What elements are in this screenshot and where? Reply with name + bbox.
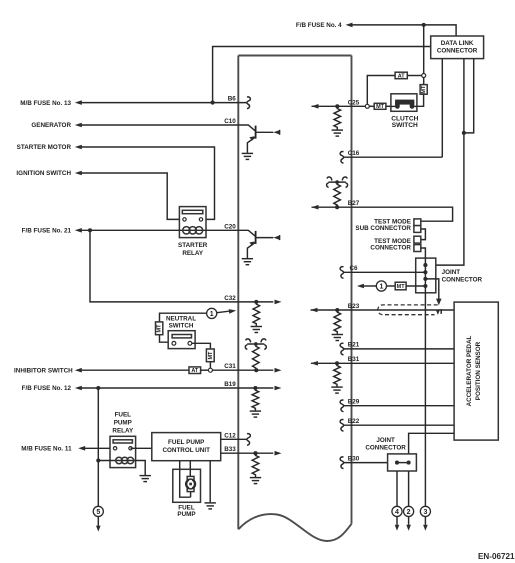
resistor B23 pull-down — [334, 310, 341, 334]
ground for B33 resistor — [250, 478, 261, 484]
arrow from circle 1 to C32 wire — [217, 311, 229, 313]
arrow C25 internal — [312, 104, 319, 109]
svg-text:M/B FUSE No. 13: M/B FUSE No. 13 — [20, 100, 71, 107]
node circle 2 reference — [404, 506, 414, 516]
test mode sub connector square 2 — [414, 226, 421, 233]
starter relay contact bar — [182, 210, 203, 213]
ground for Q1 — [242, 153, 253, 159]
fuel pump relay coil — [116, 457, 134, 464]
svg-text:FUEL: FUEL — [115, 412, 132, 419]
svg-text:SUB CONNECTOR: SUB CONNECTOR — [355, 225, 411, 232]
svg-text:ACCELERATOR PEDAL: ACCELERATOR PEDAL — [466, 335, 473, 406]
svg-text:SWITCH: SWITCH — [392, 122, 418, 129]
svg-text:JOINT: JOINT — [376, 437, 395, 444]
AT box clutch — [395, 72, 407, 79]
svg-text:C6: C6 — [349, 265, 358, 272]
wire C25 to MT box horizontal — [369, 105, 374, 107]
svg-text:AT: AT — [191, 368, 199, 374]
fuel pump control unit box — [152, 433, 221, 461]
wire sub connector to test mode connector — [421, 229, 426, 240]
svg-text:2: 2 — [407, 509, 411, 516]
arrow to INHIBITOR SWITCH — [75, 368, 82, 373]
resistor B19 pull-down — [252, 388, 259, 411]
wire test mode connector to joint connector — [421, 248, 426, 258]
wire FPCU to pin B33 — [221, 452, 239, 454]
wire sensor to joint connector 2 — [409, 433, 455, 454]
node C32 internal junction — [254, 300, 258, 304]
starter relay contact terminal right — [199, 218, 202, 221]
pin B21 terminator hook — [340, 343, 344, 355]
pin C6 terminator hook — [340, 267, 344, 279]
wire B31 row — [311, 362, 454, 364]
test mode sub connector square 1 — [414, 219, 421, 226]
wire DLC pin 1 to ECM C16 wire — [441, 59, 443, 158]
svg-text:INHIBITOR SWITCH: INHIBITOR SWITCH — [14, 367, 73, 374]
arrow to STARTER MOTOR — [75, 145, 82, 150]
node open circle AT/MT clutch — [422, 74, 426, 78]
ECM block top edge — [238, 55, 351, 57]
ground for B31 resistor — [331, 387, 342, 393]
node coil branch junction — [96, 458, 100, 462]
node open circle inhibitor/neutral — [208, 368, 212, 372]
wire C16 to DLC — [344, 156, 442, 158]
wire clutch AT branch — [367, 76, 395, 105]
ground for Q2 — [242, 259, 253, 265]
svg-text:STARTER: STARTER — [178, 242, 208, 249]
ground for C32 resistor — [251, 327, 262, 333]
wire joint connector down to circle 3 — [424, 293, 426, 507]
wire starter relay to pin C20 — [206, 229, 238, 231]
starter relay coil wire — [179, 229, 206, 231]
resistor C31 pull-up — [253, 344, 260, 370]
wire AT box to MT node — [407, 75, 421, 77]
svg-text:JOINT: JOINT — [442, 269, 461, 276]
resistor C32 pull-down — [253, 302, 260, 326]
wire neutral switch to MT box right — [192, 343, 211, 349]
ECM block left edge — [237, 56, 239, 530]
svg-text:CONNECTOR: CONNECTOR — [437, 48, 478, 55]
transistor Q1 emitter arrow — [249, 136, 254, 140]
fuel pump relay contact terminal left — [113, 447, 116, 450]
svg-text:MT: MT — [397, 284, 406, 290]
wire STARTER MOTOR to starter relay contact — [82, 147, 215, 219]
svg-text:C16: C16 — [348, 150, 360, 157]
node circle 4 reference — [392, 506, 402, 516]
arrow to F/B FUSE No. 21 — [75, 228, 82, 233]
wire junction down to clutch AT/MT node — [423, 25, 425, 74]
svg-text:1: 1 — [379, 284, 383, 291]
clutch switch contact symbol — [391, 100, 417, 109]
svg-text:C10: C10 — [224, 118, 236, 125]
resistor B27 pull-up — [334, 182, 341, 207]
MT box joint connector row — [395, 282, 406, 290]
transistor Q1 base wire — [238, 125, 255, 131]
svg-text:AT: AT — [398, 73, 406, 79]
svg-text:B6: B6 — [228, 96, 237, 103]
ground for B19 resistor — [250, 411, 261, 417]
wire MT node to MT box — [423, 78, 425, 85]
wire joint connector 2 left pin down to circle 4 — [396, 471, 398, 506]
wire AT box to node — [201, 369, 209, 371]
wire DLC pin 2 to joint connector — [425, 59, 464, 266]
pin C16 terminator hook — [340, 152, 344, 164]
arrow to F/B FUSE No. 12 — [75, 386, 82, 391]
test mode connector square 3 — [414, 236, 421, 243]
transistor Q1 bar — [255, 126, 257, 139]
svg-text:MT: MT — [208, 351, 214, 360]
arrow shield drain — [436, 299, 442, 306]
node B27 internal junction — [335, 205, 339, 209]
node joint connector pin 3 — [423, 277, 427, 281]
clutch switch box — [391, 94, 417, 112]
svg-text:MT: MT — [376, 104, 385, 110]
MT box clutch horizontal — [374, 103, 386, 110]
neutral switch terminal left — [172, 341, 176, 345]
starter relay coil — [183, 227, 203, 234]
wire coil branch to relay coil — [98, 460, 135, 462]
transistor Q1 emitter wire — [247, 137, 255, 153]
joint connector box — [416, 258, 436, 293]
node circle 3 reference — [420, 506, 430, 516]
joint connector internal wire — [424, 258, 426, 293]
node joint connector 2 pin left — [395, 461, 399, 465]
ECM block wavy bottom edge — [238, 514, 351, 541]
wire B22 to accelerator sensor — [344, 424, 454, 426]
data link connector box — [431, 36, 484, 59]
wire C6 to joint connector — [344, 271, 425, 273]
wire GENERATOR to pin C10 — [82, 124, 239, 126]
MT box neutral switch right — [206, 349, 214, 362]
node F/B FUSE No.21 branch — [88, 228, 92, 232]
arrow below circle 4 — [396, 517, 398, 525]
joint connector 2 internal wire — [397, 462, 409, 464]
node B33 internal junction — [253, 451, 257, 455]
node open circle clutch branch — [365, 104, 369, 108]
fuel pump motor symbol — [186, 476, 196, 491]
node DLC pin2/pin3 junction — [462, 131, 466, 135]
node B6 branch junction — [211, 101, 215, 105]
svg-text:MT: MT — [157, 324, 163, 333]
node joint connector 2 pin right — [407, 461, 411, 465]
node B19 internal junction — [253, 386, 257, 390]
wire B30 to joint connector 2 — [344, 462, 397, 464]
svg-text:FUEL PUMP: FUEL PUMP — [168, 439, 204, 446]
wire circle 1 to MT box neutral — [160, 313, 207, 322]
svg-text:RELAY: RELAY — [182, 250, 204, 257]
svg-text:SWITCH: SWITCH — [169, 323, 194, 330]
accelerator pedal position sensor box — [454, 302, 498, 440]
wire FPCU to fuel pump motor — [189, 461, 191, 477]
wire MT box down to inhibitor node — [209, 362, 211, 369]
svg-text:B19: B19 — [224, 381, 236, 388]
node joint connector pin 4 — [423, 284, 427, 288]
fuel pump relay box — [110, 436, 136, 467]
wire M/B FUSE No.11 to fuel pump relay — [85, 447, 115, 449]
wire C25 row — [312, 105, 366, 107]
wire B6 junction up and right to DLC — [213, 47, 431, 103]
svg-text:B30: B30 — [348, 456, 360, 463]
wire C32 internal with arrow — [238, 301, 273, 303]
svg-text:F/B FUSE No. 4: F/B FUSE No. 4 — [296, 22, 342, 29]
arrow B23 internal — [311, 308, 318, 313]
wire F/B FUSE No.12 to pin B19 — [82, 387, 239, 389]
neutral switch inner bar — [172, 335, 191, 338]
svg-text:5: 5 — [96, 509, 100, 516]
shield small arrow — [436, 310, 440, 315]
node joint connector pin 1 — [423, 263, 427, 267]
wire MT box to clutch switch box — [386, 105, 391, 107]
svg-text:C25: C25 — [348, 99, 360, 106]
fuel pump box — [173, 469, 201, 502]
pin B6 terminator hook — [247, 97, 251, 109]
transistor Q2 emitter arrow — [249, 242, 254, 246]
shield dashed outline — [378, 305, 438, 315]
transistor Q2 collector wire with arrow — [256, 237, 274, 239]
wire relay contact to fuel pump control unit — [131, 447, 152, 449]
wire F/B FUSE No.21 branch down to pin C32 — [90, 230, 238, 302]
svg-text:PUMP: PUMP — [114, 420, 132, 427]
wire INHIBITOR SWITCH to AT box — [82, 369, 190, 371]
node circle 1 reference (neutral switch) — [207, 308, 217, 318]
arrow B27 internal — [312, 205, 319, 210]
wire MT box down to clutch switch — [417, 94, 424, 106]
arrow below circle 5 — [97, 517, 99, 526]
transistor Q2 base wire — [238, 230, 255, 236]
wire DLC pin 3 — [464, 59, 474, 133]
ground for B23 resistor — [332, 335, 343, 341]
wire FPCU to ground — [209, 461, 211, 503]
svg-text:IGNITION SWITCH: IGNITION SWITCH — [16, 170, 71, 177]
shield right vertical — [440, 309, 442, 314]
svg-text:F/B FUSE No. 12: F/B FUSE No. 12 — [22, 385, 72, 392]
wire MT box to joint connector — [406, 285, 425, 287]
AT box inhibitor — [189, 367, 201, 374]
wire F/B FUSE No.12 branch down to circle 5 — [97, 388, 99, 506]
wire B23 row — [311, 309, 455, 311]
svg-text:CONTROL UNIT: CONTROL UNIT — [162, 447, 210, 454]
svg-text:B23: B23 — [348, 303, 360, 310]
wire joint connector pin 3 to shield — [425, 279, 438, 300]
svg-text:EN-06721: EN-06721 — [478, 552, 515, 561]
svg-text:STARTER MOTOR: STARTER MOTOR — [17, 144, 72, 151]
wire F/B FUSE No.4 to data link connector — [353, 25, 457, 36]
wire MT box to neutral switch — [160, 335, 173, 343]
fuel pump relay contact terminal right — [129, 447, 132, 450]
node junction on F/B FUSE No.4 wire — [422, 23, 426, 27]
svg-text:4: 4 — [395, 509, 399, 516]
wire arrow to circle 1 — [364, 285, 377, 287]
ground for fuel pump relay coil — [140, 476, 151, 482]
starter relay box — [179, 207, 206, 238]
svg-text:RELAY: RELAY — [112, 427, 134, 434]
ECM block right edge — [351, 56, 353, 524]
starter relay contact terminal left — [183, 218, 186, 221]
wire B21 to accelerator sensor — [344, 348, 454, 350]
node F/B FUSE No.12 branch — [96, 386, 100, 390]
wire B33 internal with arrow — [238, 452, 273, 454]
node circle 5 reference — [93, 506, 103, 516]
resistor B33 pull-down — [252, 453, 259, 477]
arrow below circle 3 — [424, 517, 426, 525]
arrow to M/B FUSE No. 13 — [75, 100, 82, 105]
svg-text:GENERATOR: GENERATOR — [31, 122, 71, 129]
neutral switch box — [168, 331, 195, 349]
arrow to M/B FUSE No. 11 — [78, 446, 85, 451]
neutral switch terminal right — [188, 341, 192, 345]
arrow to F/B FUSE No. 4 — [346, 23, 353, 28]
joint connector 2 box — [388, 454, 417, 471]
node B31 internal junction — [335, 361, 339, 365]
wire C31 internal with arrow — [238, 369, 273, 371]
wire B29 to accelerator sensor — [344, 405, 454, 407]
ground for FPCU — [205, 503, 216, 509]
svg-text:C32: C32 — [224, 295, 236, 302]
svg-text:B33: B33 — [224, 446, 236, 453]
svg-text:C12: C12 — [224, 432, 236, 439]
svg-text:CONNECTOR: CONNECTOR — [370, 245, 411, 252]
pin B29 terminator hook — [340, 400, 344, 412]
svg-text:B31: B31 — [348, 356, 360, 363]
svg-text:B29: B29 — [348, 399, 360, 406]
svg-text:C20: C20 — [224, 223, 236, 230]
fuel pump relay contact bar — [113, 440, 132, 443]
MT box clutch vertical — [420, 85, 427, 95]
arrow to IGNITION SWITCH — [75, 171, 82, 176]
svg-text:DATA LINK: DATA LINK — [441, 40, 474, 47]
node B23 internal junction — [335, 308, 339, 312]
connector stub pair above B27 resistor — [327, 177, 348, 188]
transistor Q1 collector wire with arrow — [256, 131, 274, 133]
node circle 1 reference (joint connector) — [376, 281, 386, 291]
node C31 internal junction — [254, 368, 258, 372]
wire B27 row — [312, 206, 352, 208]
arrow to GENERATOR — [75, 123, 82, 128]
svg-text:MT: MT — [421, 85, 427, 94]
wire F/B FUSE No.21 to starter relay coil — [82, 229, 180, 231]
connector stub pair above C31 resistor — [245, 339, 266, 350]
wire FPCU to fuel pump loop — [180, 461, 191, 498]
pin B30 terminator hook — [340, 457, 344, 469]
svg-text:3: 3 — [423, 509, 427, 516]
node joint connector pin 2 — [423, 270, 427, 274]
MT box neutral switch left — [156, 322, 163, 335]
svg-text:M/B FUSE No. 11: M/B FUSE No. 11 — [21, 446, 72, 453]
svg-text:B21: B21 — [348, 342, 360, 349]
svg-text:C31: C31 — [224, 363, 236, 370]
pin B22 terminator hook — [340, 420, 344, 432]
node C25 internal junction — [335, 104, 339, 108]
arrow below circle 2 — [408, 517, 410, 525]
transistor Q2 bar — [255, 231, 257, 244]
wire joint connector 2 right pin down to circle 2 — [408, 471, 410, 506]
svg-text:F/B FUSE No. 21: F/B FUSE No. 21 — [22, 228, 72, 235]
svg-text:POSITION SENSOR: POSITION SENSOR — [475, 341, 482, 400]
wire B27 to test mode sub connector — [352, 207, 453, 221]
wire node to pin C31 — [212, 369, 238, 371]
arrow from circle 1 row — [357, 284, 364, 289]
wire circle 1 to MT box — [387, 285, 396, 287]
test mode connector square 4 — [414, 245, 421, 252]
arrow B31 internal — [311, 361, 318, 366]
wire M/B FUSE No.13 to pin B6 — [82, 102, 247, 104]
svg-text:PUMP: PUMP — [177, 511, 195, 518]
svg-text:B27: B27 — [348, 200, 360, 207]
pin C12 terminator hook — [247, 434, 251, 446]
svg-text:B22: B22 — [348, 418, 360, 425]
resistor C25 pull-down — [334, 106, 341, 129]
wire relay coil to ground — [136, 461, 146, 476]
svg-text:CONNECTOR: CONNECTOR — [442, 276, 483, 283]
svg-text:CONNECTOR: CONNECTOR — [365, 444, 406, 451]
wire fuel pump motor to loop — [190, 491, 192, 497]
wire IGNITION SWITCH to starter relay contact — [82, 173, 185, 219]
wire FPCU to pin C12 — [221, 438, 247, 440]
wire B19 internal with arrow — [238, 387, 273, 389]
ground for C25 resistor — [332, 130, 343, 136]
resistor B31 pull-down — [334, 363, 341, 386]
svg-text:1: 1 — [210, 311, 214, 318]
transistor Q2 emitter wire — [247, 242, 255, 258]
